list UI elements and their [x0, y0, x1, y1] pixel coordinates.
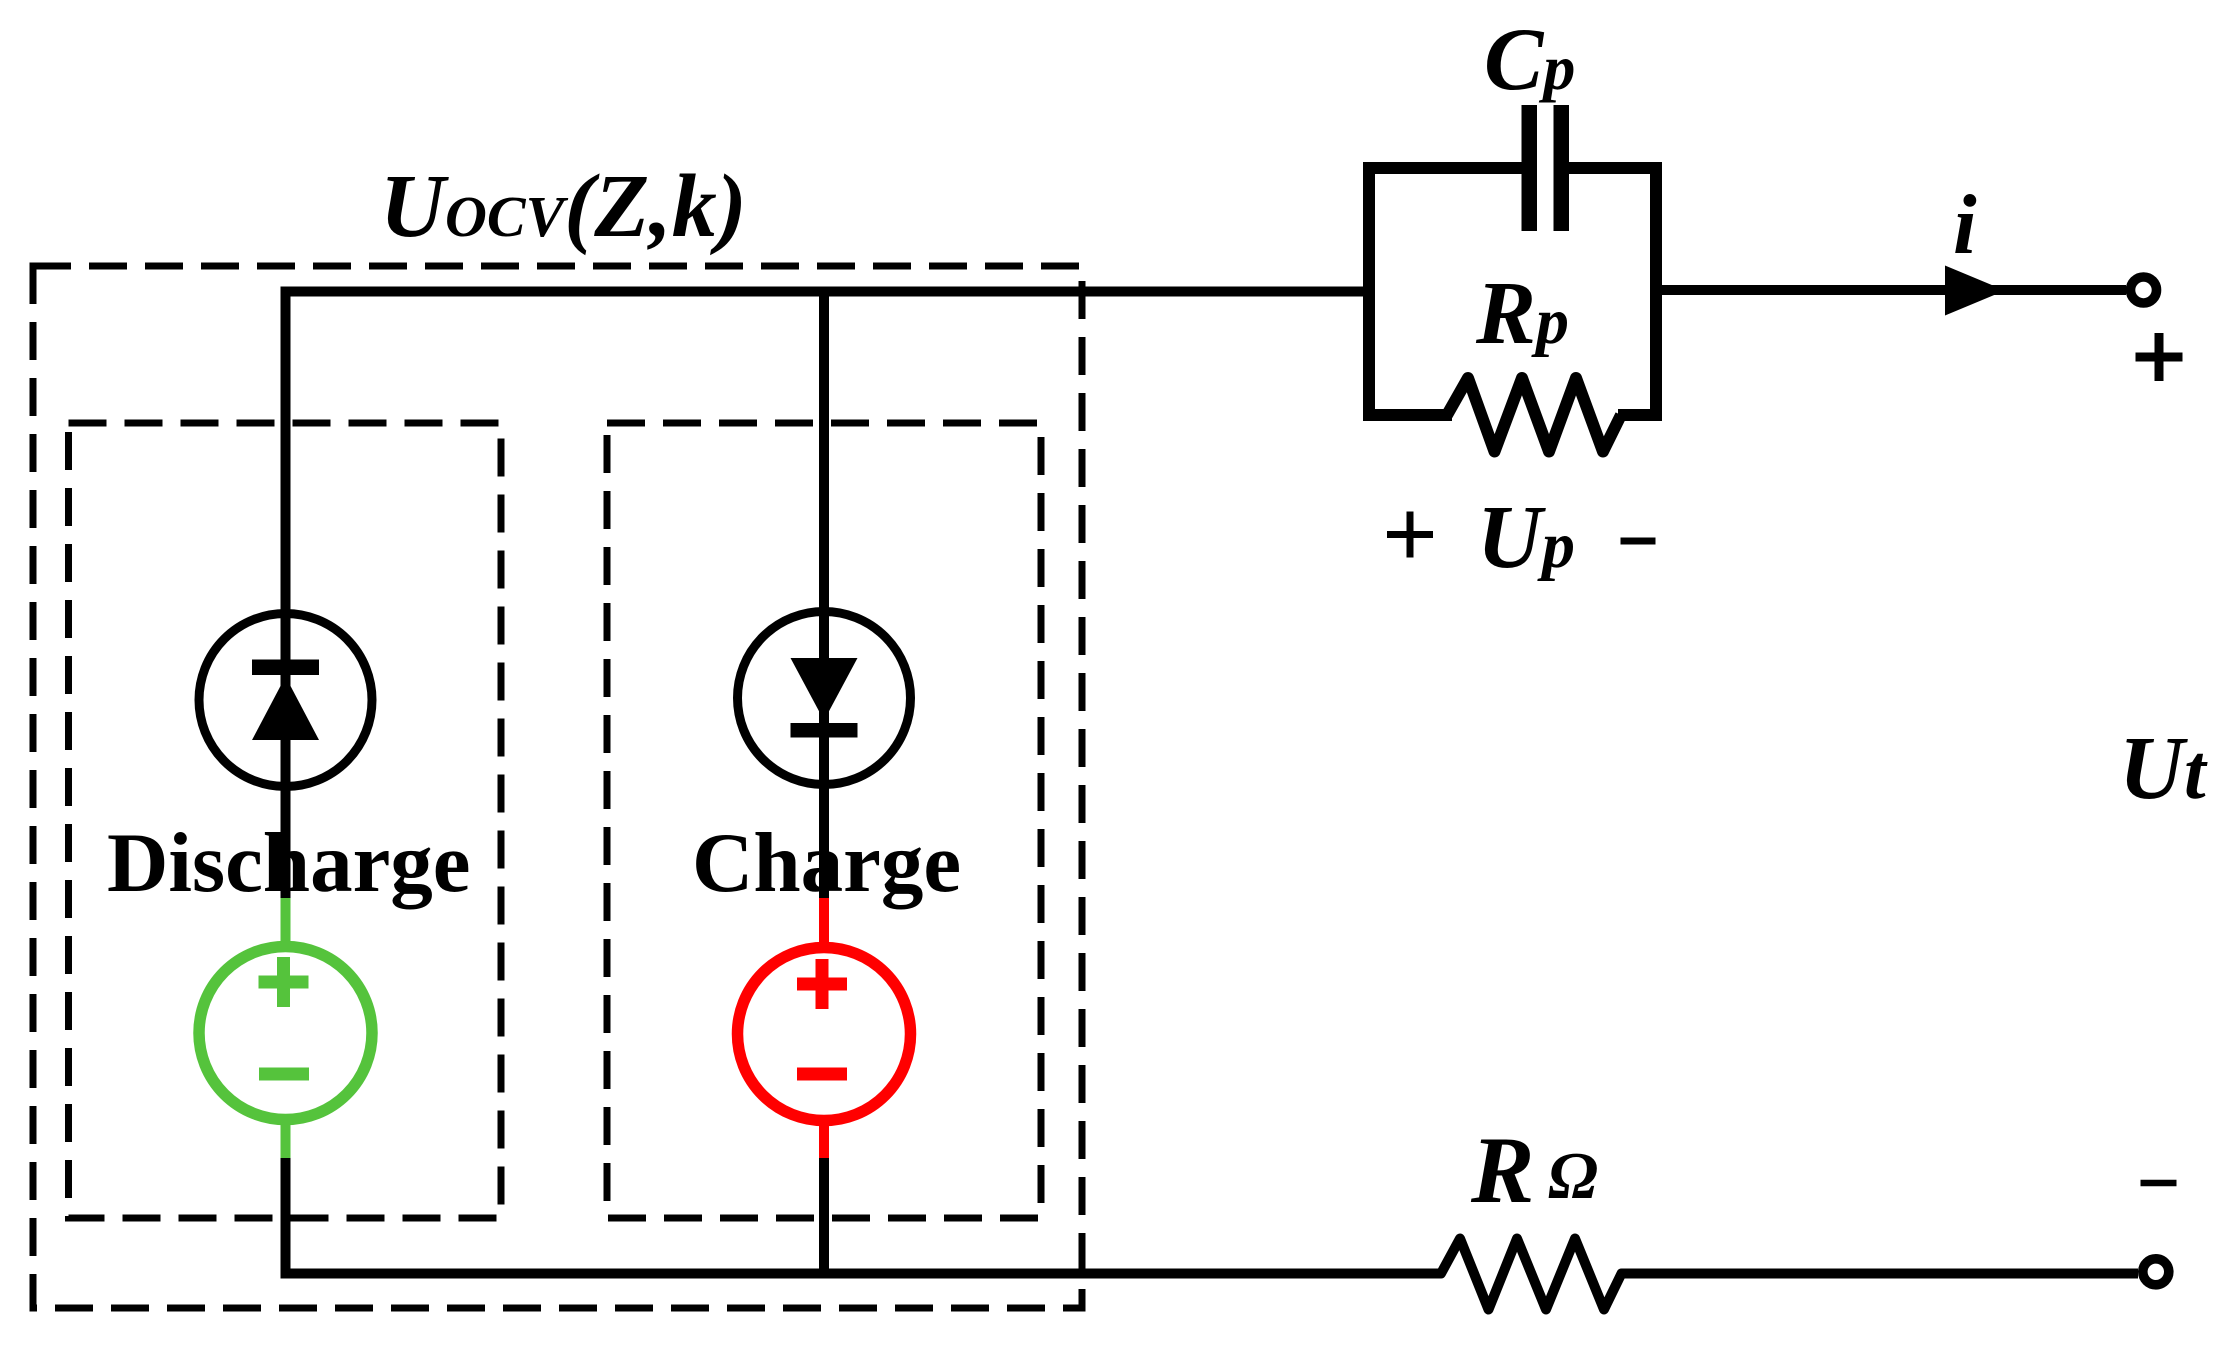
inner dashed box (Charge branch)	[607, 423, 1041, 1218]
svg-text:Rp: Rp	[1475, 264, 1569, 363]
terminal node positive (ring)	[2131, 277, 2157, 303]
minus sign at negative terminal	[2141, 1180, 2177, 1187]
svg-text:i: i	[1953, 178, 1977, 272]
wire bottom rail with resistor R ohm zigzag	[281, 1239, 2139, 1310]
svg-text:Ut: Ut	[2119, 719, 2208, 818]
svg-text:UOCV(Z,k): UOCV(Z,k)	[380, 157, 747, 256]
voltage source V1 circle (discharge hysteresis, green)	[199, 947, 372, 1120]
wire discharge branch upper vertical	[281, 287, 291, 904]
wire green upper stub	[281, 898, 291, 947]
capacitor Cp right plate	[1554, 105, 1570, 231]
wire top horizontal (node Uocv to RC box)	[281, 287, 1370, 297]
V1 minus sign	[259, 1068, 309, 1081]
svg-text:Ω: Ω	[1548, 1139, 1598, 1213]
RC box outline (parallel RC frame)	[1369, 168, 1656, 415]
voltage source V2 circle (charge hysteresis, red)	[738, 948, 911, 1121]
svg-text:Cp: Cp	[1484, 11, 1575, 109]
plus sign at positive terminal	[2136, 333, 2183, 381]
wire discharge branch lower vertical (black)	[281, 1158, 291, 1279]
resistor Rp zigzag	[1447, 378, 1621, 452]
svg-text:Charge: Charge	[692, 816, 961, 910]
svg-text:Discharge: Discharge	[107, 816, 471, 910]
V2 minus sign	[797, 1068, 847, 1081]
wire charge branch lower vertical (black)	[819, 1158, 829, 1279]
diode D1 circle (discharge branch)	[199, 614, 372, 787]
V1 plus sign	[259, 957, 309, 1007]
diode D1 triangle (pointing up)	[252, 677, 319, 741]
svg-text:R: R	[1470, 1117, 1534, 1223]
diode D2 triangle (pointing down)	[791, 658, 858, 721]
wire red upper stub	[819, 898, 829, 948]
capacitor Cp left plate	[1522, 105, 1538, 231]
terminal node negative (ring)	[2143, 1259, 2169, 1285]
wire RC box to terminal	[1656, 285, 2126, 295]
wire charge branch upper vertical	[819, 287, 829, 904]
wire red lower stub	[819, 1120, 829, 1159]
outer dashed box (OCV hysteresis model boundary)	[33, 266, 1082, 1308]
wire green lower stub	[281, 1119, 291, 1159]
current arrowhead i	[1945, 266, 2005, 316]
label plus of Up	[1387, 512, 1433, 558]
diode D2 circle (charge branch)	[738, 612, 911, 785]
diode D2 cathode bar	[791, 723, 858, 738]
label minus of Up	[1621, 538, 1656, 545]
V2 plus sign	[797, 959, 847, 1009]
diode D1 cathode bar	[252, 660, 319, 676]
svg-text:Up: Up	[1477, 488, 1575, 587]
inner dashed box (Discharge branch)	[69, 423, 502, 1218]
